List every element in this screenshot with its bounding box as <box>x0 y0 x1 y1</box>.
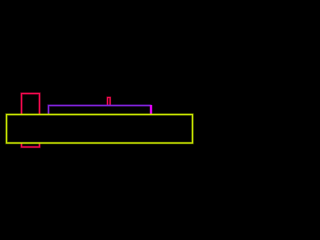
red box (left component outline) <box>22 94 40 148</box>
yellow box (main body outline) <box>7 115 193 144</box>
small red notch on top wire <box>108 98 111 106</box>
wire (purple top run) <box>49 106 152 115</box>
wire (magenta drop segment) <box>149 105 152 115</box>
